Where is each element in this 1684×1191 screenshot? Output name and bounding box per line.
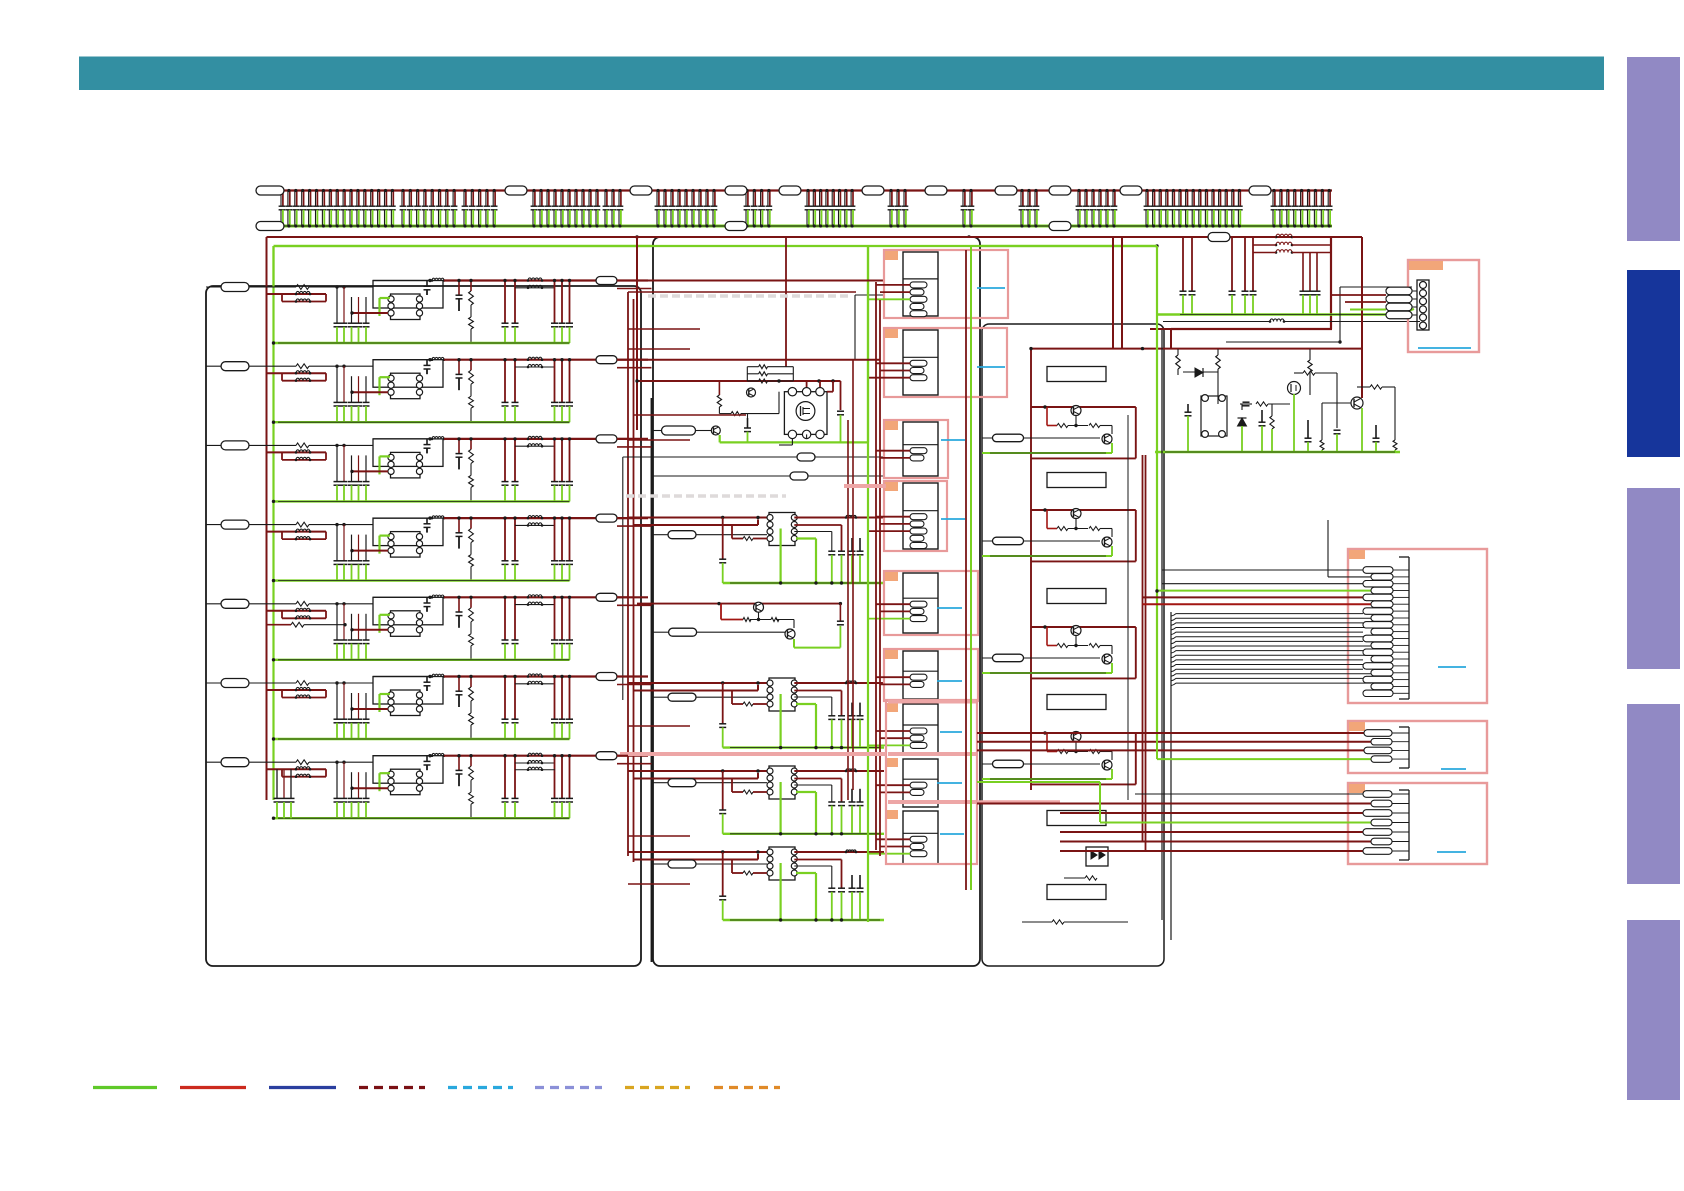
wire tr red pair 1 xyxy=(1182,237,1184,291)
wire corridor extra red 7 xyxy=(628,725,690,727)
wire red T7 xyxy=(352,787,388,789)
highlight pink divider 2 xyxy=(888,752,976,756)
mosfet Q21 symbol xyxy=(796,402,815,421)
relay K1 contacts xyxy=(910,282,927,288)
capacitor C2a xyxy=(458,360,460,375)
transistor Q22 xyxy=(711,426,720,435)
capacitor pc4 xyxy=(1334,429,1341,431)
resistor pair R62 bracket xyxy=(281,690,283,698)
wire transformer T2 feed red 2 xyxy=(634,690,759,692)
transistor Q20 xyxy=(747,388,756,397)
resistor pair R42 bracket xyxy=(281,532,283,540)
wire red rail crossing row 2 xyxy=(267,372,327,374)
wire row 5 top black xyxy=(373,596,430,598)
wire black row 476 xyxy=(653,475,790,477)
connector CN-A pins overlay xyxy=(1363,567,1393,573)
wire red T1 xyxy=(352,312,388,314)
transformer TM4 box xyxy=(769,847,795,880)
capacitor C4i xyxy=(426,518,428,524)
mosfet unit box xyxy=(784,392,827,435)
highlight pink divider 3 xyxy=(888,800,976,804)
wire red drop mid xyxy=(636,237,638,430)
wire tr black to connector xyxy=(1340,286,1412,288)
wire CN-A feed red2 xyxy=(1143,603,1372,605)
wire TM1 out black xyxy=(794,531,832,533)
connector CN-C pins xyxy=(1363,791,1392,797)
nav tab 5 xyxy=(1627,920,1680,1100)
connector pill P20 on cap-bank bottom rail xyxy=(256,222,284,231)
capacitor C1c xyxy=(514,281,516,324)
wire relay bus red3 xyxy=(847,420,849,800)
transistor Q34b xyxy=(1102,760,1112,770)
capacitor bank group 9 xyxy=(888,189,909,228)
capacitor C3a xyxy=(458,439,460,454)
wire main green rail xyxy=(274,245,1158,247)
wire CN-C feed red4 xyxy=(1060,841,1371,843)
inductor L42a xyxy=(528,516,542,519)
resistor R32a xyxy=(1057,527,1068,531)
inductor L4 xyxy=(432,516,444,518)
capacitor CT3 left xyxy=(722,771,724,810)
wire TM3 out red2 xyxy=(794,778,841,780)
nav tab 4 xyxy=(1627,704,1680,884)
wire pcb3 inner vertical xyxy=(1127,415,1129,800)
capacitor bank group 13 xyxy=(1144,189,1243,228)
resistor R42a coil xyxy=(296,529,310,532)
hyperlink cyan K7 xyxy=(940,731,962,733)
label box U5 xyxy=(1047,811,1106,826)
relay K5 contacts xyxy=(910,601,927,607)
wire row 6 input cont xyxy=(309,682,373,684)
transformer T7 box xyxy=(391,769,421,795)
highlight wire pink row7 xyxy=(620,752,886,756)
diode D41 xyxy=(1238,418,1247,426)
wire row 1 top black xyxy=(373,280,430,282)
wire top cap-bank green rail xyxy=(271,225,1332,228)
wire mosfet stack sides xyxy=(746,367,748,381)
transformer TM1 pins xyxy=(767,515,773,521)
wire red rail crossing row 5 xyxy=(267,610,327,612)
channel row 7 input wire xyxy=(206,761,296,763)
wire red verticals row 7 xyxy=(554,756,556,799)
resistor R31b xyxy=(1089,424,1100,428)
wire green T4 xyxy=(378,536,380,554)
hyperlink cyan K5 xyxy=(937,607,962,609)
wire 349 left drop xyxy=(1150,328,1171,330)
connector pill P8 on cap-bank top rail xyxy=(995,186,1017,195)
capacitor bank group 2 xyxy=(400,189,458,228)
relay K1 pink frame xyxy=(884,250,1008,318)
wire row 6 top black xyxy=(373,676,430,678)
resistor R22a coil xyxy=(296,371,310,374)
wire transformer T3 feed red top xyxy=(628,770,769,772)
capacitor C4c xyxy=(514,518,516,561)
diode D40 xyxy=(1183,371,1218,373)
wire row 6 output to middle xyxy=(617,675,648,677)
wire red drop 786 xyxy=(785,237,787,367)
transformer T5 box xyxy=(391,611,421,637)
wire row 4 output red xyxy=(444,517,596,519)
capacitor cluster row 1 xyxy=(336,287,338,323)
wire bus vertical B xyxy=(633,299,635,862)
resistor pills CN-T xyxy=(1386,287,1412,295)
wire power red drop A xyxy=(1142,455,1144,841)
connector CN1 pill xyxy=(221,283,249,292)
inductor L22b xyxy=(528,364,542,367)
wire pcb3 red drop 1 xyxy=(1112,237,1114,349)
wire middle top red xyxy=(648,280,884,282)
wire relay bus red2 xyxy=(879,300,881,856)
transformer T1 box xyxy=(391,294,421,320)
resistor R22b coil xyxy=(296,378,310,381)
connector pill row 1 output xyxy=(596,277,617,285)
wire q34 black xyxy=(1075,742,1077,752)
wire vertical green right xyxy=(1156,246,1158,740)
wire TM3 out red xyxy=(794,770,884,772)
wire CN-A feed black3 xyxy=(1162,583,1363,585)
relay K7 orange tab xyxy=(885,703,898,712)
resistor RM2 xyxy=(718,381,720,395)
wire red rail crossing row 4 xyxy=(267,531,327,533)
inductor L7 xyxy=(432,753,444,755)
wire q41 left xyxy=(1322,402,1351,404)
resistor pr9 xyxy=(1393,440,1397,450)
block PCB3 outline (right) xyxy=(982,324,1164,966)
capacitor bank group 10 xyxy=(961,189,975,228)
transistor pair Q1 outer box xyxy=(373,281,443,309)
capacitor C2b xyxy=(504,360,506,403)
connector pill P21 on cap-bank bottom rail xyxy=(725,222,747,231)
connector pill row 7 output xyxy=(596,752,617,760)
hyperlink cyan K1 xyxy=(977,287,1005,289)
relay group pink frame lower xyxy=(886,700,977,864)
relay K6 orange tab xyxy=(885,650,898,659)
connector pill P7 on cap-bank top rail xyxy=(925,186,947,195)
wire TM1 out red2 xyxy=(794,524,841,526)
resistor pair R32 bracket xyxy=(281,452,283,460)
relay K7 body xyxy=(903,704,938,754)
wire red verticals row 5 xyxy=(554,597,556,640)
relay K4 pink frame xyxy=(884,481,947,551)
wire green TM1 down xyxy=(779,529,781,584)
wires CN-T xyxy=(1331,294,1386,296)
hyperlink cyan CN-T xyxy=(1418,347,1471,349)
resistor R32a coil xyxy=(296,450,310,453)
wire corridor extra red 8 xyxy=(628,835,690,837)
connector CN-T body xyxy=(1417,280,1429,330)
capacitor C3b xyxy=(504,439,506,482)
capacitor C5b xyxy=(504,597,506,640)
wire transformer T4 feed red 2 xyxy=(634,859,759,861)
capacitor ladder TM1 xyxy=(828,550,835,552)
inductor pair L32 bracket xyxy=(515,445,555,447)
capacitor tr1 xyxy=(1180,290,1187,292)
wire pcb3 feed vertical red xyxy=(1030,349,1032,790)
wire green TM3 down2 xyxy=(796,791,816,793)
resistor pr3 xyxy=(1256,402,1268,406)
resistor R3f xyxy=(1052,920,1064,924)
transistor Q32a xyxy=(1071,509,1081,519)
inductor pair L52 bracket xyxy=(515,604,555,606)
connector pill P11 on cap-bank top rail xyxy=(1249,186,1271,195)
transistor pair Q3 outer box xyxy=(373,439,443,467)
capacitor CM1 xyxy=(840,381,842,410)
resistor R34a xyxy=(1057,750,1068,754)
transistor Q31b xyxy=(1102,434,1112,444)
wire green rail q33 xyxy=(982,672,1112,674)
wire row 5 input cont xyxy=(309,603,373,605)
connector pill P1 on cap-bank top rail xyxy=(256,186,284,195)
wire row 1 input cont xyxy=(309,286,373,288)
wire TM4 out black xyxy=(794,865,832,867)
hyperlink cyan K3 xyxy=(941,439,965,441)
connector CN-B pins overlay xyxy=(1364,730,1392,736)
relay K9 feed wires xyxy=(876,838,910,840)
wire top cap-bank red rail xyxy=(271,189,1332,191)
connector CN-T pink frame xyxy=(1408,260,1479,352)
inductor L2 xyxy=(432,357,444,359)
hyperlink cyan CN-C xyxy=(1437,851,1466,853)
wire tr red right vertical xyxy=(1330,237,1332,329)
wire green T1 xyxy=(378,298,380,316)
inductor L72b xyxy=(528,760,542,763)
resistor R71 xyxy=(296,760,309,765)
capacitor bank group 12 xyxy=(1076,189,1118,228)
inductor L32b xyxy=(528,444,542,447)
capacitor bank group 14 xyxy=(1271,189,1333,228)
wire green rail TM2 xyxy=(723,746,884,748)
relay K4 contacts xyxy=(910,514,927,520)
relay K6 pink frame xyxy=(884,649,978,701)
resistor R12b coil xyxy=(296,299,310,302)
label box U1 xyxy=(1047,367,1106,382)
capacitor C2i xyxy=(426,360,428,366)
inductor pair L72 bracket xyxy=(515,762,555,764)
wire row 4 output to middle xyxy=(617,517,648,519)
connector pill pcb3 1 xyxy=(993,434,1024,442)
hyperlink cyan K2 xyxy=(977,366,1005,368)
wire row 7 top black xyxy=(373,755,430,757)
wire row 7 output red xyxy=(444,755,596,757)
resistor pr1 xyxy=(1176,355,1181,369)
wire red rail crossing row 7 xyxy=(267,768,327,770)
connector CN2 pill xyxy=(221,362,249,371)
wire green rail q34 xyxy=(982,778,1112,780)
wire mosfet pin feeds xyxy=(806,381,808,387)
wire main green rail overlay xyxy=(274,245,1158,247)
legend dashed orange xyxy=(714,1086,780,1089)
transformer T6 pins xyxy=(388,692,394,698)
wire green bottom rail row 5 xyxy=(274,659,570,661)
wire left red drop rail overlay xyxy=(266,237,268,800)
inductor L72a xyxy=(528,753,542,756)
wire CN-A feed black1 xyxy=(1161,330,1163,568)
capacitor pc3 xyxy=(1261,410,1263,422)
label box U2 xyxy=(1047,473,1106,488)
capacitor bank group 11 xyxy=(1019,189,1040,228)
resistor RT1 xyxy=(731,525,733,539)
inductor L3 xyxy=(432,437,444,439)
wire main red rail xyxy=(267,236,1363,238)
wire green rail TM4 xyxy=(723,919,884,921)
inductor L32a xyxy=(528,436,542,439)
capacitor cluster row 3 xyxy=(336,445,338,481)
wire transformer T3 feed red 2 xyxy=(634,778,759,780)
transistor Q34a xyxy=(1071,732,1081,742)
connector CN-A pins xyxy=(1363,567,1393,573)
resistor R32b xyxy=(1089,527,1100,531)
wire green bottom rail row 2 xyxy=(274,421,570,423)
wire row 6 output red xyxy=(444,675,596,677)
capacitor pc2 xyxy=(1240,403,1252,405)
relay K1 orange tab xyxy=(885,251,898,260)
wire CN-C feed red1 xyxy=(977,803,1371,805)
wire black row 457 xyxy=(623,456,797,458)
relay K9 orange tab xyxy=(885,810,898,819)
wire red T5 xyxy=(352,629,388,631)
wire mosfet rail 381 xyxy=(637,380,841,382)
relay K9 body xyxy=(903,811,938,864)
capacitor C7i xyxy=(426,756,428,762)
transformer T4 pins xyxy=(388,534,394,540)
connector pill TM3 xyxy=(668,779,696,787)
resistor R53 xyxy=(470,597,472,608)
wire main red rail overlay xyxy=(267,236,1363,238)
inductor LT2 on out xyxy=(846,681,856,683)
transistor Q23 xyxy=(754,602,764,612)
inductor L12b xyxy=(528,285,542,288)
transistor Q33b xyxy=(1102,654,1112,664)
relay K4 orange tab xyxy=(885,482,898,491)
channel row 6 input wire xyxy=(206,682,296,684)
wire green TM2 down2 xyxy=(796,703,816,705)
connector CN6 pill xyxy=(221,679,249,688)
resistor R72a coil xyxy=(296,767,310,770)
connector pill mid1 xyxy=(662,426,696,435)
transistor Q33a xyxy=(1071,626,1081,636)
wire green rail TM3 xyxy=(723,833,884,835)
connector pill pcb3 2 xyxy=(993,537,1024,545)
connector CN-C pink frame xyxy=(1348,783,1487,864)
wire red T2 xyxy=(352,391,388,393)
connector pill P2 on cap-bank top rail xyxy=(505,186,527,195)
relay K5 pink frame xyxy=(884,571,978,635)
wire green bottom rail row 6 xyxy=(274,738,570,740)
wire row 2 top black xyxy=(373,359,430,361)
relay K9 contacts xyxy=(910,836,927,842)
connector CN-A orange tab xyxy=(1349,550,1365,559)
wire left green drop rail xyxy=(272,246,274,800)
connector CN-A bracket xyxy=(1408,557,1410,699)
block PCB1 outline (left) xyxy=(206,286,641,966)
wire q24 green xyxy=(793,639,795,648)
resistor R31a xyxy=(1057,424,1068,428)
resistor R43 xyxy=(470,518,472,529)
resistor R52 extra xyxy=(267,624,292,626)
transistor pair Q6 outer box xyxy=(373,677,443,705)
connector pill P4 on cap-bank top rail xyxy=(725,186,747,195)
transformer T1 pins xyxy=(388,296,394,302)
connector CN-C pins overlay xyxy=(1363,791,1392,797)
transistor Q41 xyxy=(1351,397,1363,409)
wire CN-A feed black2 xyxy=(1327,520,1329,577)
transformer TM3 pins xyxy=(767,768,773,774)
capacitor bank group 8 xyxy=(805,189,856,228)
wire transformer T4 feed red top xyxy=(628,851,769,853)
transistor pair Q2 outer box xyxy=(373,360,443,388)
capacitor C1a xyxy=(458,281,460,296)
resistor R13 xyxy=(470,281,472,292)
wire tr black 342 xyxy=(1226,341,1340,343)
resistor RQ1 xyxy=(743,618,751,622)
wire red verticals row 3 xyxy=(554,439,556,482)
legend dashed cyan xyxy=(448,1086,513,1089)
wire corridor extra red 9 xyxy=(628,883,690,885)
inductor L5 xyxy=(432,595,444,597)
wire tr red pair 2 xyxy=(1231,237,1233,291)
connector CN3 pill xyxy=(221,441,249,450)
capacitor C6i xyxy=(426,677,428,683)
wire green T5 xyxy=(378,615,380,633)
transformer T7 pins xyxy=(388,771,394,777)
wire TM2 out red xyxy=(794,682,884,684)
capacitor C7b xyxy=(504,756,506,799)
wire CN-C feed red2 xyxy=(1060,812,1363,814)
connector CN-T orange tab xyxy=(1409,261,1443,270)
wire middle red 329 xyxy=(1171,328,1332,330)
capacitor bank group 5 xyxy=(603,189,624,228)
hyperlink cyan K9 xyxy=(940,833,964,835)
wire corridor extra red 2 xyxy=(634,414,747,416)
connector CN-B pins xyxy=(1364,730,1392,736)
wire red loop Q32 xyxy=(1031,509,1136,511)
wire CN-C feed green xyxy=(977,781,1100,783)
capacitor pc1 xyxy=(1187,404,1189,412)
relay K6 body xyxy=(903,651,938,699)
connector pill row 5 output xyxy=(596,593,617,601)
wire corridor extra red 4 xyxy=(628,348,690,350)
capacitor bank group 3 xyxy=(462,189,498,228)
wire transformer T1 feed red 2 xyxy=(634,524,759,526)
resistor RT2 xyxy=(731,691,733,705)
capacitor C1i xyxy=(426,281,428,287)
inductor L6 xyxy=(432,674,444,676)
wire row 7 input cont xyxy=(309,761,373,763)
relay K8 body xyxy=(903,759,938,807)
connector CN7 pill xyxy=(221,758,249,767)
mosfet Q40 xyxy=(1288,382,1301,395)
connector CN-A pink frame xyxy=(1348,549,1487,703)
capacitor C7a xyxy=(458,756,460,771)
wire green bottom rail row 7 xyxy=(274,817,570,819)
wire CN-C feed red5 xyxy=(1060,850,1363,852)
relay K3 orange tab xyxy=(885,421,898,430)
wire row 3 input cont xyxy=(309,444,373,446)
wire TM2 out red2 xyxy=(794,690,841,692)
wire power red drop B xyxy=(1145,455,1147,851)
wire q41 red xyxy=(1361,237,1363,398)
connector pill P22 on cap-bank bottom rail xyxy=(1049,222,1071,231)
inductor L62a xyxy=(528,674,542,677)
resistor R32b coil xyxy=(296,457,310,460)
wire relay bus red4 xyxy=(852,360,854,790)
connector CN-C bracket xyxy=(1408,790,1410,860)
resistor R11 xyxy=(296,285,309,290)
inductor L72c third coil row7 xyxy=(528,767,542,770)
connector pill pcb3 4 xyxy=(993,760,1024,768)
resistor pair R52 bracket xyxy=(281,611,283,619)
inductor pair L22 bracket xyxy=(515,366,555,368)
